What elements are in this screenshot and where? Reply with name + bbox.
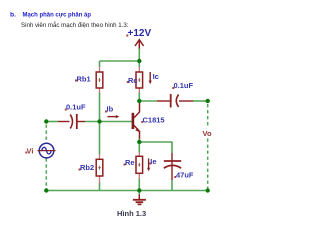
svg-text:47uF: 47uF	[176, 171, 194, 180]
svg-text:Ic: Ic	[153, 72, 159, 81]
svg-text:Vi: Vi	[27, 147, 34, 156]
svg-text:Rb1: Rb1	[77, 75, 91, 84]
svg-text:Vo: Vo	[203, 129, 212, 138]
svg-text:Ie: Ie	[150, 157, 156, 166]
svg-text:Rb2: Rb2	[80, 163, 94, 172]
svg-text:Ib: Ib	[107, 105, 114, 114]
svg-text:Sinh viên mắc mạch điện theo h: Sinh viên mắc mạch điện theo hình 1.3:	[21, 20, 129, 29]
svg-text:+12V: +12V	[128, 28, 152, 39]
svg-text:Mạch phân cực phân áp: Mạch phân cực phân áp	[23, 12, 92, 19]
svg-text:Rc: Rc	[128, 76, 138, 85]
svg-text:b.: b.	[10, 12, 16, 19]
svg-text:0.1uF: 0.1uF	[66, 103, 86, 112]
svg-text:Re: Re	[125, 158, 135, 167]
svg-text:0.1uF: 0.1uF	[174, 81, 194, 90]
svg-text:Hình 1.3: Hình 1.3	[117, 209, 146, 218]
svg-text:C1815: C1815	[143, 116, 165, 125]
